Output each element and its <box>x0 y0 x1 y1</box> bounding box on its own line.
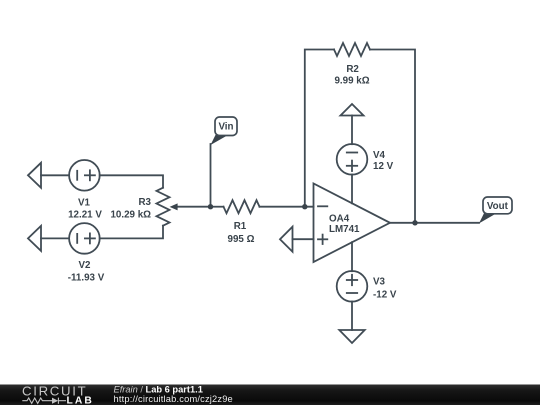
wire flag to V2 <box>41 237 69 239</box>
potentiometer R3 <box>157 188 170 226</box>
wire R3 wiper junction to R1 <box>211 206 224 208</box>
junction node A (Vin / wiper / R1) <box>208 204 213 209</box>
node flag Vin box <box>215 117 237 136</box>
resistor R1 <box>224 200 260 213</box>
feedback wire left vertical and top <box>305 50 334 207</box>
power flag above V4 (up arrow) <box>341 104 364 116</box>
logo zigzag and diode glyph <box>22 398 66 404</box>
wire V4 to op-amp top <box>351 175 353 204</box>
node flag Vout tail <box>479 213 497 223</box>
wire op-amp bottom to V3 <box>351 242 353 271</box>
svg-text:R3: R3 <box>138 197 151 208</box>
svg-text:12.21 V: 12.21 V <box>68 209 102 220</box>
svg-text:LM741: LM741 <box>329 224 360 235</box>
svg-text:-11.93 V: -11.93 V <box>68 273 105 284</box>
junction node C (output / feedback) <box>412 220 417 225</box>
svg-text:V2: V2 <box>79 260 92 271</box>
voltage source V2 <box>69 223 100 254</box>
wire R3 bottom to V2 <box>100 226 163 239</box>
voltage source V3 <box>337 271 368 302</box>
node flag Vin tail <box>211 135 229 145</box>
ground flag V2 <box>28 226 41 251</box>
svg-text:V4: V4 <box>373 150 386 161</box>
svg-text:Vin: Vin <box>218 122 233 133</box>
wire R3 wiper <box>177 206 211 208</box>
junction node B (feedback / minus input) <box>302 204 307 209</box>
op-amp plus symbol <box>318 238 327 240</box>
wire R1 to op-amp minus input <box>260 206 314 208</box>
voltage source V4 <box>337 144 368 175</box>
svg-text:V1: V1 <box>78 197 91 208</box>
svg-text:995 Ω: 995 Ω <box>228 234 255 245</box>
wire flag to plus input <box>293 238 314 240</box>
svg-text:V3: V3 <box>373 277 386 288</box>
ground flag V1 (left-pointing triangle) <box>28 163 41 188</box>
op-amp minus symbol <box>318 205 327 207</box>
op-amp OA4 LM741 triangle <box>314 184 391 263</box>
ground symbol <box>339 330 364 343</box>
svg-text:9.99 kΩ: 9.99 kΩ <box>334 76 369 87</box>
resistor R2 <box>334 43 370 56</box>
feedback wire top right and right vertical <box>370 50 415 223</box>
wire V3 to ground <box>351 302 353 331</box>
R3 wiper arrowhead <box>170 203 178 210</box>
svg-text:Vout: Vout <box>487 201 509 212</box>
wire Vin vertical <box>210 144 212 207</box>
svg-text:Efrain / Lab 6 part1.1: Efrain / Lab 6 part1.1 <box>114 384 203 394</box>
svg-text:http://circuitlab.com/czj2z9e: http://circuitlab.com/czj2z9e <box>114 394 233 404</box>
node flag Vout box <box>483 197 512 214</box>
wire V1 to R3 top <box>100 175 163 187</box>
voltage source V1 <box>69 160 100 191</box>
svg-text:LAB: LAB <box>67 395 94 405</box>
svg-text:R2: R2 <box>346 64 359 75</box>
svg-text:-12 V: -12 V <box>373 289 397 300</box>
wire arrow to V4 <box>351 116 353 145</box>
ground flag plus input <box>280 227 293 252</box>
svg-text:10.29 kΩ: 10.29 kΩ <box>110 209 151 220</box>
svg-text:12 V: 12 V <box>373 161 394 172</box>
svg-text:OA4: OA4 <box>329 213 350 224</box>
wire op-amp output <box>390 222 479 224</box>
wire flag to V1 <box>41 174 69 176</box>
svg-text:R1: R1 <box>234 221 247 232</box>
